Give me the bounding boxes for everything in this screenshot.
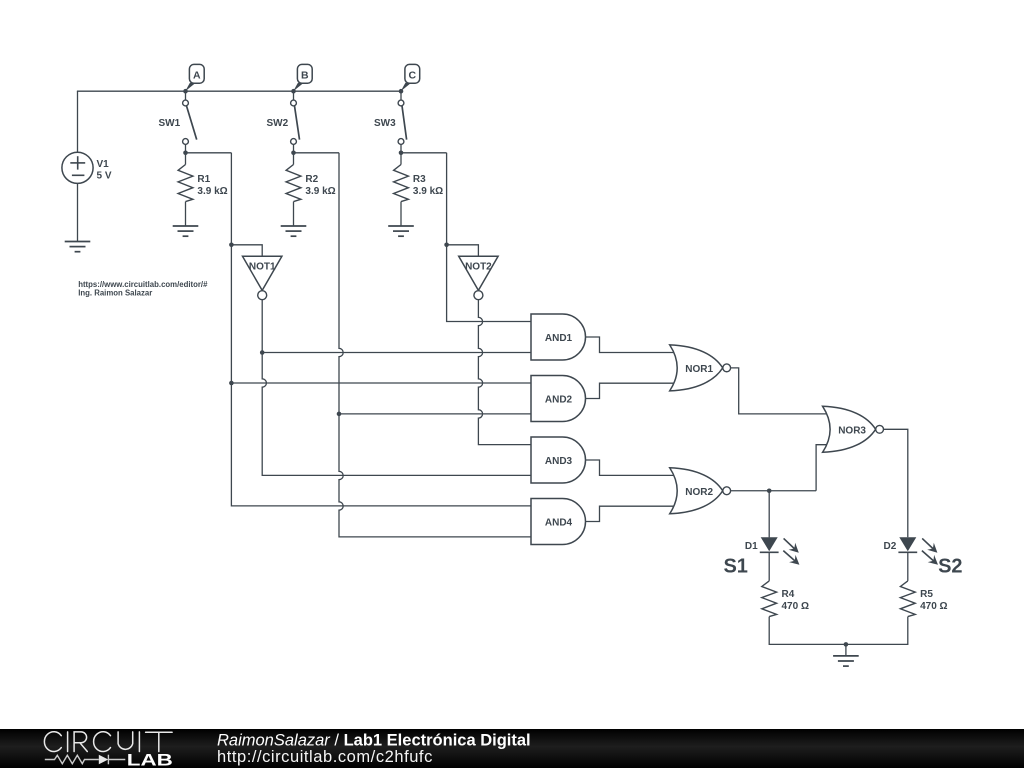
wire top power rail (77, 90, 401, 92)
note text (78, 280, 208, 298)
svg-text:C: C (409, 69, 417, 81)
svg-text:470 Ω: 470 Ω (920, 601, 947, 612)
wire ground stub (845, 644, 847, 656)
svg-text:3.9 kΩ: 3.9 kΩ (197, 186, 227, 197)
node SW1-R1 junction (183, 151, 188, 156)
nor-gate NOR3 (823, 406, 884, 452)
ground under V1 (65, 242, 91, 252)
wire D1 to R4 (768, 552, 770, 581)
ground bottom right (833, 656, 859, 666)
svg-text:Ing. Raimon Salazar: Ing. Raimon Salazar (78, 289, 152, 298)
wire R4 to ground rail (769, 617, 846, 645)
wire NOT2 input (447, 245, 479, 256)
svg-text:D2: D2 (884, 541, 897, 552)
resistor R1, 3.9 k (178, 165, 228, 202)
wire NOR2 out up to NOR3 (816, 445, 831, 491)
wire AND1 output to NOR1 (586, 337, 678, 353)
wire bus NOT2 output (478, 300, 531, 445)
wire bus B (SW2 node) (294, 153, 532, 537)
and-gate AND3 (531, 437, 586, 483)
voltage source V1, 5 V (62, 152, 112, 183)
svg-text:3.9 kΩ: 3.9 kΩ (305, 186, 335, 197)
wire bus C (SW3 node) (401, 153, 531, 322)
ground under R1 (173, 226, 199, 236)
svg-text:NOT2: NOT2 (465, 262, 492, 273)
svg-text:SW1: SW1 (159, 118, 181, 129)
wire AND2 output to NOR1 (586, 383, 678, 398)
wire SW3 rail stub (400, 91, 402, 100)
svg-text:R4: R4 (782, 589, 795, 600)
svg-text:http://circuitlab.com/c2hfufc: http://circuitlab.com/c2hfufc (217, 748, 433, 766)
wire D2 to R5 (907, 552, 909, 581)
node ground junction (844, 642, 849, 647)
wire NOT1 input (231, 245, 262, 256)
wire AND3 output to NOR2 (586, 460, 678, 475)
svg-text:NOR3: NOR3 (838, 426, 866, 437)
svg-text:V1: V1 (97, 159, 110, 170)
footer bar (0, 729, 1024, 768)
wire SW1 rail stub (185, 91, 187, 100)
inverter NOT2 (459, 256, 498, 299)
svg-text:NOR1: NOR1 (685, 364, 713, 375)
switch SW2 (267, 100, 300, 164)
resistor R5 labels (920, 589, 947, 612)
wire V1 top to rail (77, 91, 79, 152)
wire R2 to ground (293, 202, 295, 226)
node SW3-R3 junction (399, 151, 404, 156)
resistor R5, 470 (900, 581, 915, 617)
svg-text:R5: R5 (920, 589, 933, 600)
svg-text:SW2: SW2 (267, 118, 289, 129)
wire NOR2 node to D1 (768, 491, 770, 538)
resistor R2, 3.9 k (286, 165, 336, 202)
wire AND2 bottom input (339, 413, 531, 415)
and-gate AND2 (531, 376, 586, 422)
wire bus NOT1 output (260, 300, 531, 476)
svg-text:NOR2: NOR2 (685, 487, 713, 498)
svg-text:LAB: LAB (127, 751, 173, 768)
resistor R3, 3.9 k (394, 165, 444, 202)
inverter NOT1 (243, 256, 282, 299)
wire NOR1 output to NOR3 (731, 368, 831, 414)
led D1 / S1 (723, 537, 799, 577)
svg-text:S2: S2 (938, 555, 962, 577)
wire NOR2 output (731, 488, 817, 493)
resistor R4, 470 (762, 581, 777, 617)
CircuitLab logo wordmark CIRCUIT (44, 732, 172, 752)
ground under R3 (388, 226, 414, 236)
svg-text:B: B (301, 69, 309, 81)
nor-gate NOR1 (670, 345, 731, 391)
svg-text:AND2: AND2 (545, 395, 573, 406)
svg-text:R1: R1 (197, 174, 210, 185)
switch SW1 (159, 100, 197, 164)
wire AND1 bottom input (262, 352, 531, 354)
node SW2-R2 junction (291, 151, 296, 156)
switch SW3 (374, 100, 407, 164)
svg-text:470 Ω: 470 Ω (782, 601, 809, 612)
wire SW2 rail stub (293, 91, 295, 100)
ground under R2 (281, 226, 307, 236)
svg-text:3.9 kΩ: 3.9 kΩ (413, 186, 443, 197)
node B label (291, 64, 312, 93)
svg-text:NOT1: NOT1 (249, 262, 276, 273)
and-gate AND1 (531, 314, 586, 360)
svg-text:D1: D1 (745, 541, 758, 552)
wire R1 to ground (185, 202, 187, 226)
svg-text:R3: R3 (413, 174, 426, 185)
svg-text:AND3: AND3 (545, 456, 573, 467)
svg-text:SW3: SW3 (374, 118, 396, 129)
svg-text:R2: R2 (305, 174, 318, 185)
wire AND4 output to NOR2 (586, 506, 678, 521)
node A label (183, 64, 204, 93)
svg-text:A: A (193, 69, 201, 81)
led D2 / S2 (884, 537, 963, 577)
wire V1 bottom to ground (77, 183, 79, 241)
nor-gate NOR2 (670, 468, 731, 514)
svg-text:RaimonSalazar / Lab1 Electróni: RaimonSalazar / Lab1 Electrónica Digital (217, 731, 531, 749)
and-gate AND4 (531, 499, 586, 545)
resistor R4 labels (782, 589, 809, 612)
wire NOR3 output to D2 (884, 429, 908, 537)
node C label (399, 64, 420, 93)
svg-text:S1: S1 (723, 555, 747, 577)
svg-text:5 V: 5 V (97, 171, 112, 182)
CircuitLab logo resistor-diode glyph (45, 755, 126, 765)
wire R5 to ground rail (846, 617, 908, 645)
wire bus A (SW1 node) (186, 153, 532, 506)
svg-text:AND4: AND4 (545, 518, 573, 529)
svg-text:AND1: AND1 (545, 333, 573, 344)
wire R3 to ground (400, 202, 402, 226)
wire AND2 top input (231, 382, 531, 384)
